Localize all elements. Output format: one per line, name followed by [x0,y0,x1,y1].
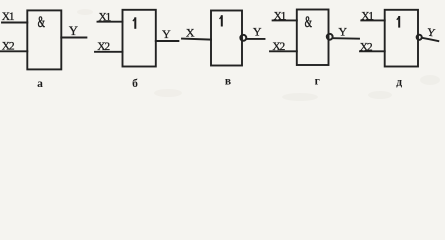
svg-text:X: X [186,26,195,40]
svg-text:X2: X2 [360,41,373,53]
svg-text:Y: Y [253,25,262,39]
svg-text:д: д [396,77,402,89]
wire Y output г [334,37,359,40]
gate body б [123,10,156,67]
svg-text:Y: Y [162,27,171,41]
wire X2 input д [360,50,385,52]
wire Y output в [247,38,265,40]
wire X2 input г [270,50,297,52]
svg-text:X1: X1 [274,10,287,22]
wire Y output д [423,38,439,41]
svg-text:в: в [225,76,231,88]
svg-text:б: б [132,78,138,90]
wire X1 input д [361,19,384,21]
function symbol 1 of в [221,16,223,25]
wire X2 input а [1,50,28,52]
gate body в [211,11,242,66]
svg-text:г: г [315,76,320,88]
svg-text:X2: X2 [2,41,15,53]
svg-text:X1: X1 [2,11,15,23]
svg-text:&: & [305,14,312,31]
wire X1 input б [98,21,123,23]
svg-text:а: а [37,78,43,90]
wire X1 input а [2,22,27,24]
svg-text:Y: Y [69,24,78,38]
inversion bubble г [327,34,333,40]
svg-text:&: & [38,14,45,31]
gate body д [385,10,418,67]
svg-text:Y: Y [338,24,347,38]
gate body а [27,10,61,69]
function symbol 1 of д [398,17,400,27]
svg-text:X1: X1 [361,10,374,22]
svg-text:X1: X1 [99,12,112,24]
inversion bubble д [417,35,422,40]
inversion bubble в [240,35,246,41]
wire Y output а [61,37,86,39]
svg-text:X2: X2 [272,41,285,53]
wire X1 input г [273,19,297,21]
wire X2 input б [95,51,123,53]
wire Y output б [156,40,179,42]
wire X input в [182,39,211,40]
gate body г [297,10,329,66]
svg-text:X2: X2 [97,41,110,53]
function symbol 1 of б [134,18,136,28]
